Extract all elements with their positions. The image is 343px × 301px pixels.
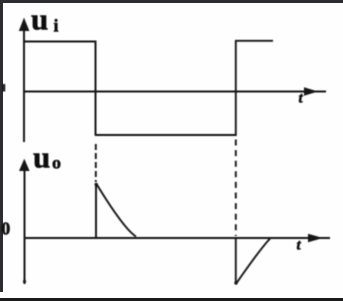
dashed guide line at t2	[235, 140, 237, 237]
u_o spike 1: exponential decay curve	[97, 184, 137, 237]
clipped 0 at origin of u_i graph	[3, 84, 6, 92]
u_o spike 2: vertical drop at t2	[235, 238, 237, 284]
svg-text:i: i	[54, 16, 59, 36]
svg-text:u: u	[33, 140, 50, 175]
y-axis of u_o graph	[24, 168, 26, 284]
y-axis of u_i graph	[23, 27, 25, 142]
svg-text:0: 0	[1, 219, 10, 239]
square wave u_i: first high segment	[23, 41, 96, 43]
x-axis t of u_o graph	[24, 237, 330, 239]
square wave u_i: rising edge at t2	[235, 41, 237, 137]
ink blob at u_o spike 2 bottom	[234, 281, 237, 284]
ink blob at u_o spike 1 peak	[95, 183, 98, 186]
square wave u_i: low segment	[95, 134, 236, 136]
y-axis arrowhead (u_o)	[19, 159, 30, 171]
square wave u_i: falling edge at t1	[95, 41, 97, 136]
u_o spike 1: vertical rise at t1	[95, 184, 97, 239]
square wave u_i: second high segment	[235, 40, 273, 42]
x-axis arrowhead (u_i graph)	[304, 87, 318, 96]
x-axis t of u_i graph	[23, 91, 326, 93]
dashed guide line at t1	[95, 144, 97, 182]
y-axis arrowhead (u_i)	[19, 18, 30, 31]
x-axis arrowhead (u_o graph)	[308, 234, 323, 242]
svg-text:o: o	[52, 153, 61, 173]
ink blob at lower end of u_o y-axis	[23, 280, 26, 283]
u_o spike 2: exponential recovery curve	[236, 239, 270, 284]
svg-text:u: u	[31, 2, 48, 37]
